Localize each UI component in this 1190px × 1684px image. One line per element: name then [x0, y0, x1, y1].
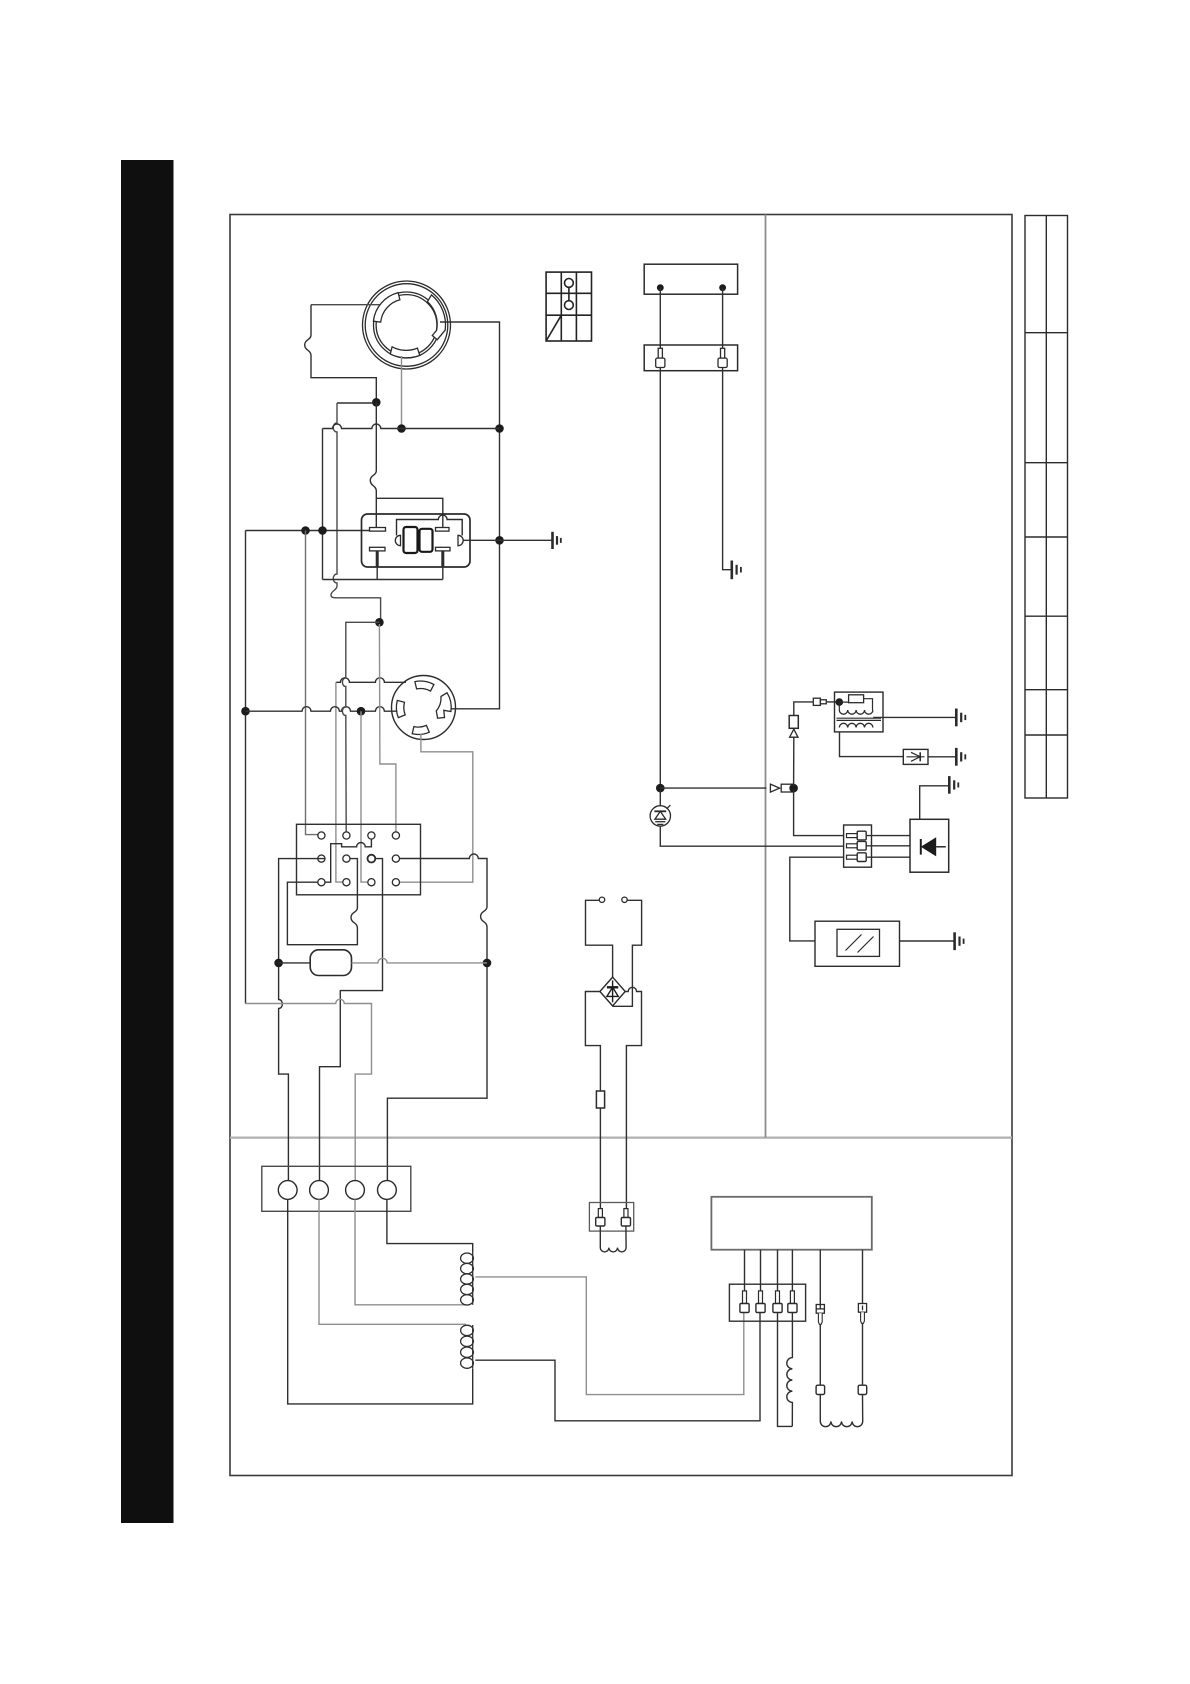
ignition coil secondary winding [839, 723, 873, 727]
stator main winding 1 [461, 1253, 474, 1305]
receptacle slot (left) [396, 700, 405, 717]
relay T-terminal (bottom-right) [436, 547, 451, 566]
wire: key switch bottom lead (gray) [401, 356, 403, 429]
CDI control unit box [711, 1197, 871, 1250]
node: junction feeding 12-pin block [375, 618, 384, 627]
receptacle slot (right, keyed) [436, 693, 451, 718]
relay terminal bar (top-left) [370, 528, 386, 532]
wire: terminal 4 to winding 1 top [387, 1199, 473, 1252]
main frame box [230, 215, 1012, 1476]
wire: terminal 3 to winding 1 bottom [355, 1199, 466, 1304]
stator main winding 2 [461, 1325, 474, 1369]
wire: block jumper pin1-3 to pin3-1 [325, 839, 371, 882]
ignition coil primary winding [839, 710, 873, 714]
wire: CDI leads down [745, 1250, 863, 1305]
wire: top feed corner down to block pin 3-2 [336, 682, 343, 882]
inline connector (arrow up) [790, 729, 798, 737]
wire: pickup coil loop pin3 side [778, 1313, 793, 1427]
right reference table [1025, 216, 1068, 799]
wire: breaker right lead (gray) with hop [352, 958, 488, 963]
horizontal divider wall [230, 1136, 1012, 1138]
CDI connector pin 2 [756, 1291, 765, 1313]
ground (diode) [956, 748, 965, 766]
node: junction rail to bus drop [318, 526, 327, 535]
wire: junction down through jog to relay coil top-left [370, 402, 376, 527]
CDI bullet terminal (+) [816, 1305, 824, 1325]
node: junction on starter bus [495, 424, 504, 433]
spark plug cap 1 [816, 1385, 825, 1394]
wire: switch left to diode top [586, 900, 613, 977]
regulator connector pin row3 [847, 853, 867, 862]
fuse (vertical) [789, 716, 798, 729]
node: junction at relay ground wire [495, 536, 504, 545]
connector pair (female box) [781, 784, 793, 792]
receptacle slot (bottom) [412, 725, 429, 734]
node: junction rail to block drop [301, 526, 310, 535]
ignition coil assembly box [835, 692, 884, 732]
relay D-contact (right) [458, 535, 463, 545]
receptacle slot (top) [415, 681, 434, 691]
ground (battery) [732, 561, 741, 580]
wire: junction down to regulator connector row1 [794, 790, 844, 836]
wire: receptacle top feed with hops [336, 678, 406, 683]
wire: lamp output to regulator connector row2 [660, 826, 843, 846]
wire: block pin2-1 run to output circle 1 [279, 859, 325, 1181]
wire: relay output to ground [464, 539, 553, 541]
wire: drop from left feed to block pin 3-3 [361, 711, 367, 882]
wire: block pin2-4 run to output circle 4 [387, 854, 487, 1181]
generator output terminal strip [262, 1166, 411, 1211]
output terminal circle 1 [278, 1181, 297, 1200]
wire: left corner drop with hops down to lower junction [331, 403, 381, 620]
node: junction battery feed split [656, 784, 665, 793]
wire: relay T stems to tie loop [377, 567, 443, 580]
output terminal circle 2 [310, 1181, 329, 1200]
node: junction block run 4 to breaker wire [483, 959, 492, 968]
node: junction after connector pair [789, 784, 798, 793]
diode unit box [903, 749, 928, 764]
oil gauge window [837, 929, 880, 956]
ground (coil secondary) [956, 709, 965, 727]
battery connector pin (right) [718, 348, 727, 367]
wire: coil bottom tap to diode [840, 732, 904, 757]
relay coil element 1 [404, 527, 418, 553]
wire: key left drop with flex jog down to junction [305, 305, 377, 400]
wire: breaker left lead [279, 962, 311, 964]
pickup coil winding on pin4 drop [787, 1313, 793, 1427]
key switch position table [546, 272, 591, 341]
CDI 4-pin connector body [729, 1284, 805, 1321]
node: junction above relay feed [372, 398, 381, 407]
wire: short link into junction from left corner [337, 402, 374, 404]
wire: terminal 1 to stator tap [288, 1199, 473, 1404]
battery terminal dot (right) [719, 284, 726, 291]
node: junction at ignition coil input [836, 698, 844, 706]
diode symbol inside diamond [607, 980, 618, 1002]
block pin circles row 3 [318, 879, 400, 886]
charge indicator lamp (LED) [650, 805, 670, 826]
ground (rectifier) [949, 776, 958, 794]
wire: receptacle bottom lead to block pin 3-4 [400, 734, 473, 882]
wire: gray return bus to output circle 3 [246, 999, 372, 1180]
relay T-terminal (bottom-left) [370, 547, 386, 566]
relay D-contact (left) [395, 535, 400, 545]
wire: battery negative to ground [723, 368, 732, 570]
connector pair (male arrow) [770, 784, 779, 792]
circuit breaker body [310, 950, 351, 976]
ignition secondary winding (scallops) [820, 1395, 862, 1427]
2-pin connector pin left [596, 1209, 605, 1226]
wire: diamond left to fuse branch [585, 992, 600, 1092]
output terminal circle 4 [378, 1181, 397, 1200]
key switch contact tab (bottom) [390, 347, 420, 358]
wire: left rail long drop [245, 531, 247, 1004]
wire: gauge to ground [900, 940, 955, 942]
wire: diamond right branch with hop [625, 987, 641, 1208]
node: junction key bottom to starter bus [397, 424, 406, 433]
oil switch contact (left circle) [599, 897, 604, 902]
charge lamp wire down into lamp [659, 790, 661, 806]
wire: relay bottom tie loop [323, 579, 443, 581]
wire: block jumper pin2-2 to pin3-1 (S-drop) [287, 859, 357, 945]
wire: diode to ground [928, 756, 956, 758]
wire: junction drop to block pin 1-4 [379, 624, 396, 832]
block pin circles row 2 [318, 855, 400, 863]
2-pin connector body [589, 1203, 633, 1232]
black sidebar tab [121, 160, 174, 1523]
battery box [644, 264, 737, 294]
CDI bullet terminal (-) [858, 1304, 866, 1324]
wire: feed to inline connector pair [660, 787, 766, 789]
battery connector pin (left) [656, 348, 665, 367]
wire: receptacle left feed bus with hops [246, 707, 398, 712]
vertical divider wall [765, 215, 767, 1138]
battery terminal dot (left) [657, 284, 664, 291]
wire: regulator connector row3 to meter [790, 857, 844, 941]
wire: relay feeder rail [246, 530, 370, 532]
oil level gauge box [815, 921, 900, 966]
wire: spark leads down [820, 1323, 862, 1385]
oil gauge hatch lines [846, 935, 874, 953]
wire: block pin2-3 run to output circle 2 [320, 859, 383, 1181]
oil sender winding loop [600, 1226, 626, 1252]
wire: battery leads down [660, 288, 722, 349]
wire: junction drop to block pin 1-2 [342, 622, 379, 832]
wire: coil secondary to ground [873, 716, 956, 718]
wire: terminal 2 to winding 2 top [319, 1199, 466, 1324]
2-pin connector pin right [621, 1209, 630, 1226]
key switch contact tab (right, with notch) [427, 295, 445, 340]
wire: winding 1 tap to CDI pin 1 (gray) [475, 1277, 744, 1395]
relay coil element 2 [420, 529, 433, 552]
AC receptacle (twist-lock) body [392, 676, 456, 740]
CDI connector pin 4 [788, 1291, 797, 1313]
ignition coil core [837, 718, 882, 720]
regulator connector pin row2 [847, 841, 867, 850]
relay terminal bar (top-right) [436, 528, 450, 532]
ignition coil resistor [849, 695, 864, 703]
spark plug cap 2 [858, 1385, 867, 1394]
wire: junction up through fuse to ignition coil [793, 737, 795, 786]
ground (relay circuit) [553, 532, 561, 549]
node: junction left feed to block pin 3-3 [357, 707, 366, 716]
wire: connector rows to rectifier [866, 836, 910, 858]
wire: fuse up and over to coil input [794, 702, 814, 716]
battery connector housing [644, 345, 737, 371]
node: junction on receptacle neutral run [241, 707, 250, 716]
wire: rectifier to ground [920, 786, 950, 820]
regulator 3-pin connector body [844, 825, 872, 867]
regulator connector pin row1 [847, 831, 867, 840]
diode (oil level) diamond [600, 977, 625, 1006]
wire: key switch left lead [311, 304, 380, 306]
oil switch contact (right circle) [622, 897, 627, 902]
rectifier diode symbol [921, 837, 946, 856]
wire: bullet to coil junction [826, 701, 839, 703]
node: junction block run to breaker [274, 959, 283, 968]
key switch contact tab (upper-left) [373, 293, 400, 323]
wire: winding 2 tap to CDI pin 2 [475, 1313, 760, 1421]
wire: relay internal loop with hop [397, 515, 463, 535]
wire: battery positive long drop [659, 368, 661, 789]
CDI connector pin 1 [740, 1291, 749, 1313]
ground (gauge) [955, 932, 964, 950]
wire: drop from rail to block pin 1-1 [306, 531, 318, 835]
ignition key switch SW1 [363, 281, 451, 369]
wire: fuse down to 2-pin connector [599, 1108, 601, 1209]
wire: switch right to diode bottom [613, 900, 642, 1006]
diode symbol [907, 752, 925, 761]
wire: key switch right lead [440, 322, 500, 709]
rectifier/regulator box [910, 819, 949, 872]
output terminal circle 3 [346, 1181, 365, 1200]
wire: relay top link to coil top-right [376, 498, 443, 527]
12-pin connector block body [297, 824, 421, 895]
block pin circles row 1 [318, 832, 400, 839]
wire: starter bus with crossover hops [323, 424, 500, 429]
inline bullet connector [813, 698, 826, 705]
fuse (oil circuit) [596, 1091, 604, 1108]
relay RL1 body [362, 514, 471, 567]
wire: coil input links [839, 699, 872, 710]
wire: bus drop to relay bottom loop [322, 429, 324, 580]
CDI connector pin 3 [773, 1291, 782, 1313]
